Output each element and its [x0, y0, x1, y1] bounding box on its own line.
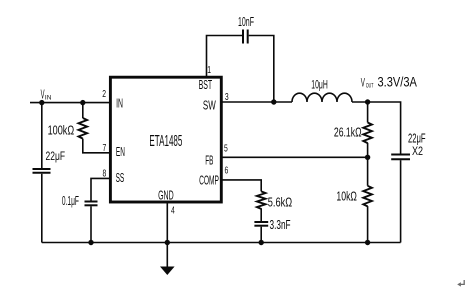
svg-text:3.3nF: 3.3nF [270, 218, 291, 232]
svg-text:8: 8 [103, 167, 107, 179]
svg-text:X2: X2 [412, 145, 423, 159]
svg-text:2: 2 [102, 88, 106, 100]
svg-text:5: 5 [224, 142, 228, 154]
svg-text:4: 4 [171, 204, 175, 216]
svg-text:EN: EN [116, 146, 125, 160]
svg-text:7: 7 [103, 142, 107, 154]
svg-text:IN: IN [45, 95, 52, 102]
svg-text:SW: SW [203, 100, 216, 113]
svg-text:COMP: COMP [199, 175, 219, 189]
svg-text:OUT: OUT [366, 83, 374, 90]
svg-text:GND: GND [158, 189, 174, 203]
svg-text:FB: FB [205, 154, 213, 168]
svg-text:IN: IN [116, 97, 123, 111]
svg-text:SS: SS [116, 172, 125, 186]
svg-text:10kΩ: 10kΩ [336, 190, 357, 204]
svg-text:0.1μF: 0.1μF [62, 195, 79, 209]
svg-text:BST: BST [199, 79, 213, 93]
svg-text:3.3V/3A: 3.3V/3A [378, 75, 418, 90]
svg-text:10nF: 10nF [238, 16, 254, 30]
svg-text:3: 3 [225, 91, 229, 103]
svg-text:22μF: 22μF [46, 151, 66, 164]
svg-text:ETA1485: ETA1485 [149, 132, 182, 150]
svg-text:10μH: 10μH [311, 78, 327, 92]
svg-text:26.1kΩ: 26.1kΩ [334, 126, 362, 140]
svg-text:6: 6 [225, 164, 229, 176]
svg-text:100kΩ: 100kΩ [48, 124, 75, 138]
svg-text:1: 1 [207, 64, 211, 76]
svg-text:5.6kΩ: 5.6kΩ [268, 196, 292, 210]
svg-text:V: V [361, 77, 366, 91]
